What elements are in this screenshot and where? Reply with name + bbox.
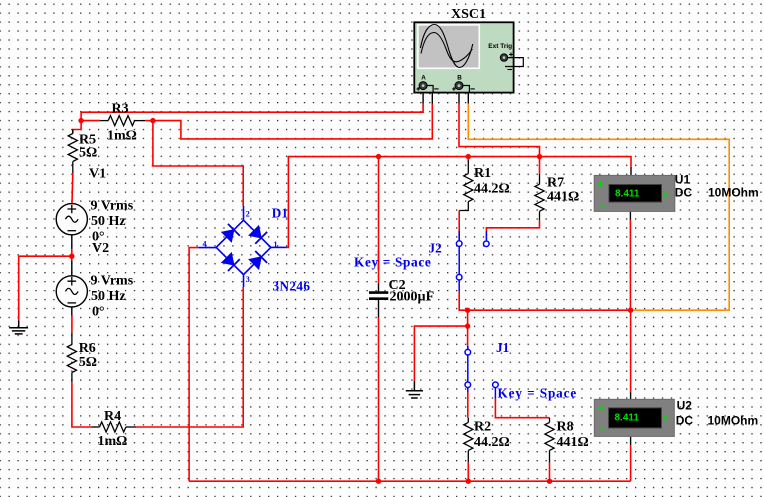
wire R4 to bridge pin 3 xyxy=(136,287,243,427)
svg-text:50 Hz: 50 Hz xyxy=(91,214,126,229)
svg-text:10MOhm: 10MOhm xyxy=(708,186,759,200)
junction C2 bottom xyxy=(376,479,381,484)
svg-text:3N246: 3N246 xyxy=(273,278,311,293)
svg-text:V2: V2 xyxy=(92,241,109,256)
wire C2 to bottom rail xyxy=(378,318,380,482)
diode 2-1 (top-right) xyxy=(249,226,267,244)
wire bridge pin 4 to bottom rail xyxy=(189,248,216,482)
svg-text:R3: R3 xyxy=(112,101,129,116)
wire scope B+ to R7 top xyxy=(459,90,540,157)
svg-text:2: 2 xyxy=(246,210,250,219)
ground symbol center xyxy=(406,382,423,399)
label V1 values xyxy=(89,167,134,245)
svg-text:Key = Space: Key = Space xyxy=(498,386,578,401)
svg-text:DC: DC xyxy=(676,413,694,427)
label R4 value 1mΩ xyxy=(98,409,128,449)
wire U1 minus to mid rail xyxy=(629,211,631,310)
svg-text:8.411: 8.411 xyxy=(615,189,640,200)
U2 display xyxy=(609,408,662,428)
diode 4-2 (top-left) xyxy=(222,224,240,242)
svg-text:R2: R2 xyxy=(474,420,491,435)
scope waveform trace A xyxy=(421,25,473,68)
svg-text:R8: R8 xyxy=(557,420,574,435)
Ext Trig terminal stub xyxy=(505,58,523,67)
svg-text:J2: J2 xyxy=(429,241,443,256)
source V2 9Vrms xyxy=(56,276,87,307)
junction R8 bottom xyxy=(547,479,552,484)
wire mid rail to U2 plus xyxy=(630,310,632,399)
wire R8 to bottom rail xyxy=(549,462,551,481)
wire bottom rail to U2 minus xyxy=(630,436,632,481)
wire J1 throw 2 to R8 xyxy=(495,399,549,418)
svg-text:R7: R7 xyxy=(547,176,564,191)
svg-text:Ext Trig: Ext Trig xyxy=(488,43,512,50)
svg-text:A: A xyxy=(421,75,426,82)
junction R3 right xyxy=(150,118,155,123)
svg-text:50 Hz: 50 Hz xyxy=(91,289,126,304)
svg-text:44.2Ω: 44.2Ω xyxy=(474,435,510,450)
wire R3 right node to bridge pin 2 xyxy=(153,121,243,206)
oscilloscope XSC1 xyxy=(414,22,523,92)
resistor R7 xyxy=(535,157,544,221)
label C2 value 2000µF xyxy=(389,278,435,305)
svg-text:8.411: 8.411 xyxy=(615,413,640,424)
wire R3 node to R5 xyxy=(73,121,81,134)
wire stub bridge pin 2 xyxy=(243,206,245,220)
svg-text:XSC1: XSC1 xyxy=(451,7,486,22)
label V2 values xyxy=(91,241,134,319)
svg-text:0°: 0° xyxy=(92,304,105,319)
label R1 value 44.2Ω xyxy=(474,166,510,196)
wire J2 common to mid rail xyxy=(459,291,467,310)
wire scope A+ to R3 left node xyxy=(81,90,423,121)
svg-text:3: 3 xyxy=(246,275,250,284)
svg-text:441Ω: 441Ω xyxy=(547,190,579,205)
svg-text:10MOhm: 10MOhm xyxy=(708,413,759,427)
svg-text:4: 4 xyxy=(203,240,207,249)
wire bridge pin 1 to plus rail xyxy=(271,157,631,248)
junction mid rail right xyxy=(628,308,633,313)
junction C2 top xyxy=(376,154,381,159)
capacitor C2 2000uF xyxy=(369,284,388,318)
wire scope B- (orange) to mid rail xyxy=(463,86,730,311)
resistor R2 xyxy=(464,418,473,463)
svg-text:DC: DC xyxy=(675,186,693,200)
svg-text:9 Vrms: 9 Vrms xyxy=(91,273,134,288)
wire stub bridge pin 3 xyxy=(243,275,245,287)
svg-text:441Ω: 441Ω xyxy=(557,435,589,450)
svg-text:V: V xyxy=(663,416,668,423)
label R5 value 5Ω xyxy=(79,133,97,161)
svg-text:R6: R6 xyxy=(79,341,96,356)
svg-text:V: V xyxy=(663,193,668,200)
wire mid rail to J1 common xyxy=(467,326,469,349)
resistor R8 xyxy=(545,418,554,463)
multimeter U1 xyxy=(594,175,675,211)
wire scope A- to R3 right node xyxy=(153,86,432,139)
svg-text:1: 1 xyxy=(274,240,278,249)
wire V2 to R6 xyxy=(71,307,73,333)
diode 4-3 (bottom-left) xyxy=(222,253,240,271)
svg-text:1mΩ: 1mΩ xyxy=(107,129,137,144)
wire plus rail to C2 xyxy=(378,157,380,284)
svg-text:V1: V1 xyxy=(89,167,106,182)
wire J1 to R2 xyxy=(467,392,469,418)
svg-text:B: B xyxy=(457,75,462,82)
svg-text:5Ω: 5Ω xyxy=(79,146,97,161)
wire R2 to bottom rail xyxy=(467,462,469,481)
wire R1 to J2 throw 1 xyxy=(458,211,460,241)
svg-text:5Ω: 5Ω xyxy=(79,355,97,370)
resistor R1 xyxy=(459,157,473,211)
svg-text:R1: R1 xyxy=(474,166,491,181)
ground symbol left xyxy=(9,320,28,334)
wire bottom rail xyxy=(189,480,630,482)
U1 display xyxy=(609,185,662,203)
resistor R5 xyxy=(68,130,77,174)
junction V1 V2 mid tap xyxy=(69,254,74,259)
diode 3-1 (bottom-right) xyxy=(249,251,267,269)
multimeter U2 xyxy=(594,399,674,436)
diode bridge D1 3N246 xyxy=(216,220,271,274)
wire mid rail to ground and J1 xyxy=(467,310,469,326)
svg-text:9 Vrms: 9 Vrms xyxy=(91,199,134,214)
label R7 value 441Ω xyxy=(547,176,579,205)
svg-text:U1: U1 xyxy=(675,172,691,186)
Ext Trig terminal plug xyxy=(500,54,507,61)
label U2 DC 10MOhm xyxy=(676,398,758,427)
label R2 value 44.2Ω xyxy=(474,420,510,450)
scope screen xyxy=(418,25,479,68)
svg-text:44.2Ω: 44.2Ω xyxy=(474,181,510,196)
junction R7 top xyxy=(537,154,542,159)
junction mid rail left xyxy=(465,308,470,313)
wire segment crossing label xyxy=(378,251,380,270)
svg-text:R4: R4 xyxy=(104,409,121,424)
wire R6 to R4 xyxy=(72,382,92,427)
svg-text:2000µF: 2000µF xyxy=(390,290,435,305)
junction R2 bottom xyxy=(466,479,471,484)
resistor R4 xyxy=(91,422,136,432)
junction ground tap xyxy=(465,323,470,328)
scope waveform trace B xyxy=(421,33,472,62)
svg-text:U2: U2 xyxy=(677,398,693,412)
svg-text:Key = Space: Key = Space xyxy=(354,254,431,269)
wire mid rail xyxy=(468,309,631,311)
svg-text:J1: J1 xyxy=(496,340,509,355)
wire V1 to V2 with mid tap xyxy=(71,235,73,276)
label R3 value 1mΩ xyxy=(107,101,137,143)
junction R1 top xyxy=(466,154,471,159)
resistor R3 xyxy=(81,116,153,126)
switch J1 xyxy=(465,349,498,398)
label R8 value 441Ω xyxy=(557,420,589,450)
svg-text:D1: D1 xyxy=(272,206,288,221)
label U1 DC 10MOhm xyxy=(675,172,759,199)
junction R3 left xyxy=(78,118,83,123)
terminal B plug xyxy=(455,82,463,90)
wire R5 to V1 xyxy=(71,173,74,203)
label R6 value 5Ω xyxy=(79,341,97,370)
resistor R6 xyxy=(67,333,76,383)
wire R7 to J2 throw 2 xyxy=(486,221,539,241)
switch J2 xyxy=(456,241,489,291)
svg-text:1mΩ: 1mΩ xyxy=(98,434,128,449)
wire mid tap to ground xyxy=(19,256,72,320)
source V1 9Vrms xyxy=(56,204,87,235)
terminal A plug xyxy=(419,82,427,90)
